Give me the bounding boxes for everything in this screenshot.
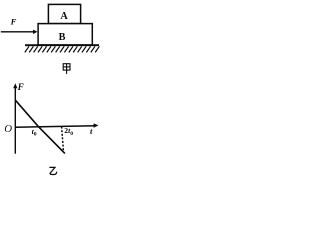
- F(t) descending line: [16, 100, 65, 153]
- F axis (graph): [14, 87, 16, 154]
- block B: [38, 24, 92, 45]
- svg-text:F: F: [10, 17, 17, 27]
- dashed line at 2t0: [62, 127, 64, 151]
- label jia (甲): [63, 64, 70, 74]
- block A: [48, 4, 80, 23]
- ground hatching: [25, 46, 100, 52]
- force arrow F: [1, 31, 34, 33]
- label yi (乙): [49, 167, 56, 174]
- svg-text:F: F: [17, 82, 24, 92]
- t axis: [15, 126, 95, 128]
- svg-text:A: A: [60, 11, 68, 22]
- svg-text:B: B: [59, 32, 66, 43]
- background: [0, 0, 103, 179]
- ground: [25, 44, 99, 46]
- svg-text:O: O: [4, 123, 12, 135]
